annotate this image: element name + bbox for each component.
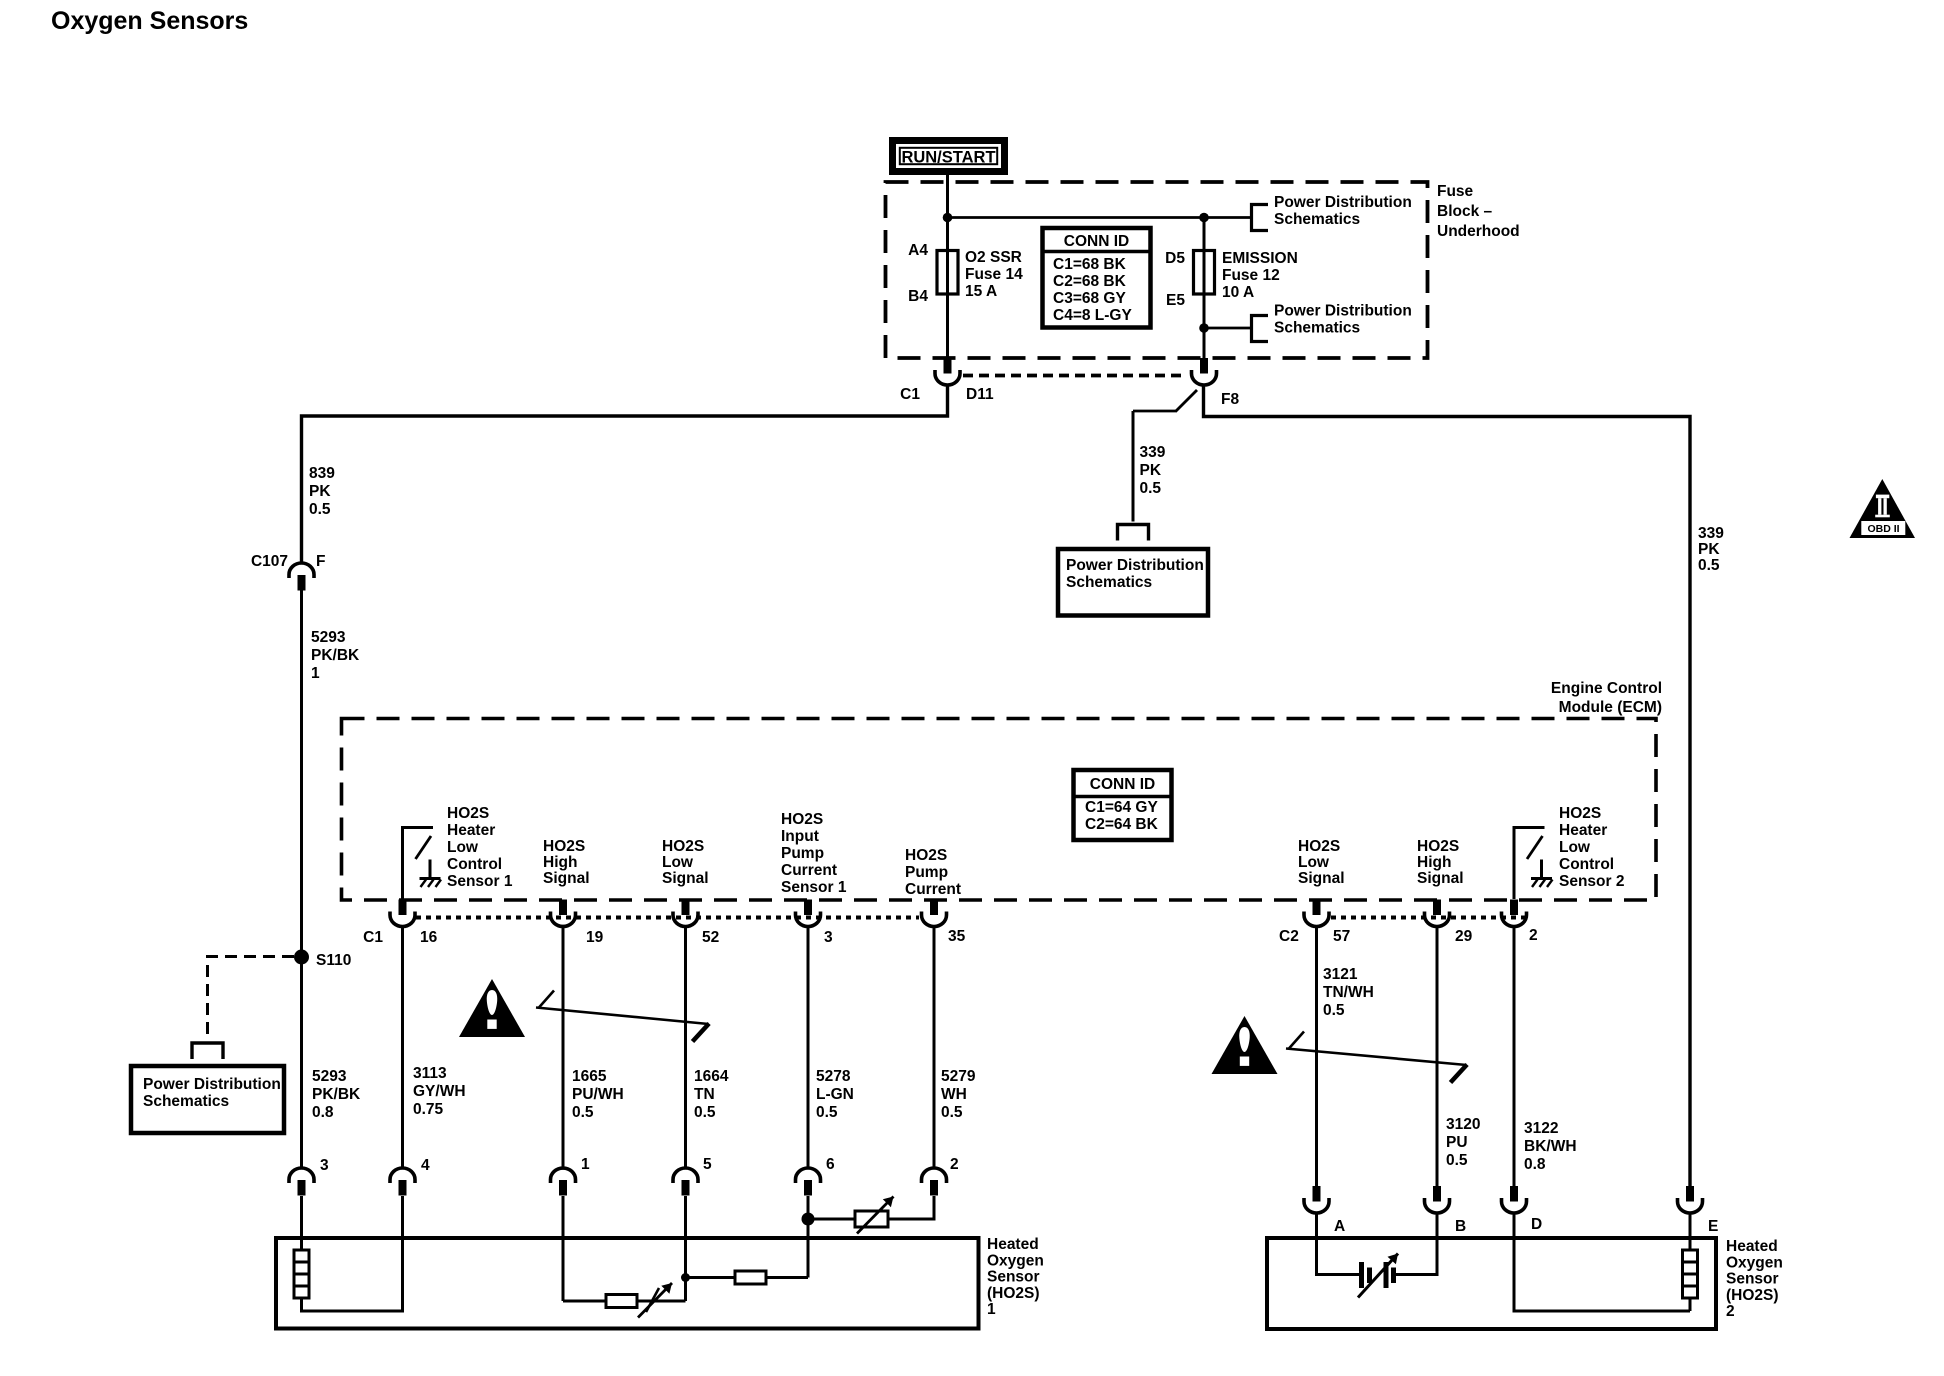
heater element (sensor 2)	[1683, 1213, 1698, 1311]
heater element (sensor 1)	[294, 1250, 309, 1298]
svg-text:0.5: 0.5	[694, 1104, 716, 1121]
svg-text:HO2S: HO2S	[781, 811, 823, 828]
label: wire 1664 TN 0.5	[694, 1068, 729, 1121]
svg-text:Sensor 2: Sensor 2	[1559, 873, 1624, 890]
svg-text:OBD II: OBD II	[1867, 523, 1899, 535]
svg-text:Schematics: Schematics	[1066, 574, 1152, 591]
svg-text:C1=64 GY: C1=64 GY	[1085, 799, 1158, 816]
label: wire 3121 TN/WH 0.5	[1323, 966, 1374, 1019]
svg-text:Power Distribution: Power Distribution	[1274, 194, 1412, 211]
svg-text:C2=64 BK: C2=64 BK	[1085, 816, 1159, 833]
label: pin 35	[948, 928, 966, 945]
fuse F12 EMISSION 10A	[1194, 218, 1215, 295]
wire: bus to Power Distribution tap	[948, 216, 1252, 219]
label: terminal B	[1455, 1218, 1466, 1235]
warning symbol (sensor 1 circuits)	[459, 979, 525, 1037]
label: pin 52	[702, 929, 719, 946]
label: HO2S Input Pump Current Sensor 1 (pin 3)	[781, 811, 847, 896]
svg-text:5293: 5293	[311, 629, 346, 646]
wire 3121 TN/WH 0.5: ECM 57 to HO2S-2 pin A	[1315, 926, 1318, 1186]
label: wire 1665 PU/WH 0.5	[572, 1068, 624, 1121]
label: terminal 4	[421, 1157, 430, 1174]
svg-text:Sensor 1: Sensor 1	[781, 879, 847, 896]
fuse F14 O2 SSR 15A	[937, 251, 958, 295]
svg-text:0.5: 0.5	[309, 501, 331, 518]
svg-text:HO2S: HO2S	[447, 805, 489, 822]
svg-text:Schematics: Schematics	[143, 1093, 229, 1110]
svg-text:Fuse 12: Fuse 12	[1222, 267, 1280, 284]
svg-text:3113: 3113	[413, 1065, 447, 1082]
pump resistor R (sensor 1)	[735, 1271, 766, 1284]
svg-text:C1: C1	[900, 386, 920, 403]
svg-text:B4: B4	[908, 288, 928, 305]
svg-text:0.8: 0.8	[1524, 1156, 1546, 1173]
svg-text:F: F	[316, 553, 325, 570]
wire: pin 5 into sensor 1	[684, 1196, 687, 1301]
wire 5293 PK/BK 1: C107 to S110	[300, 590, 303, 957]
svg-text:5278: 5278	[816, 1068, 851, 1085]
svg-text:C4=8 L-GY: C4=8 L-GY	[1053, 307, 1132, 324]
svg-text:339: 339	[1140, 444, 1166, 461]
svg-text:S110: S110	[316, 952, 351, 969]
svg-text:57: 57	[1333, 928, 1350, 945]
label: wire 3113 GY/WH 0.75	[413, 1065, 466, 1118]
svg-text:Engine Control: Engine Control	[1551, 680, 1662, 697]
svg-text:Module (ECM): Module (ECM)	[1559, 699, 1662, 716]
label: Engine Control Module (ECM)	[1551, 680, 1662, 716]
svg-text:0.5: 0.5	[1446, 1152, 1468, 1169]
svg-text:Block –: Block –	[1437, 203, 1493, 220]
svg-text:Current: Current	[781, 862, 837, 879]
svg-text:(HO2S): (HO2S)	[1726, 1287, 1779, 1304]
label: HO2S Heater Low Control Sensor 2	[1559, 805, 1624, 890]
wire 839 PK 0.5: C1 down and across to left	[302, 386, 948, 564]
label: terminal D	[1531, 1216, 1542, 1233]
reference box: Power Distribution Schematics (center)	[1058, 549, 1208, 616]
label: wire 5278 L-GN 0.5	[816, 1068, 854, 1121]
label: wire 3122 BK/WH 0.8	[1524, 1120, 1577, 1173]
label: Heated Oxygen Sensor (HO2S) 2	[1726, 1238, 1783, 1320]
svg-text:F8: F8	[1221, 391, 1239, 408]
ECM pin 52 terminal	[673, 900, 698, 927]
connector body dashed line C1-F8	[963, 374, 1187, 378]
svg-text:35: 35	[948, 928, 966, 945]
ECM pin 2 terminal (C2)	[1502, 900, 1527, 927]
wire: heater to pin 4 (inside sensor 1)	[302, 1238, 403, 1311]
svg-text:Low: Low	[1559, 839, 1591, 856]
wire: EMISSION fuse to lower tap	[1203, 294, 1206, 358]
svg-text:Heated: Heated	[1726, 1238, 1778, 1255]
svg-text:HO2S: HO2S	[905, 847, 947, 864]
note pointer arrow (sensor 1)	[536, 991, 709, 1042]
svg-text:5293: 5293	[312, 1068, 347, 1085]
label: pin A4	[908, 242, 928, 259]
svg-text:16: 16	[420, 929, 438, 946]
svg-text:0.8: 0.8	[312, 1104, 334, 1121]
svg-text:4: 4	[421, 1157, 430, 1174]
svg-text:1: 1	[311, 665, 320, 682]
svg-text:C1: C1	[363, 929, 383, 946]
svg-text:3121: 3121	[1323, 966, 1358, 983]
wire 5278 L-GN 0.5: ECM 3 to HO2S-1 pin 6	[807, 926, 810, 1169]
svg-text:PK: PK	[1698, 541, 1720, 558]
svg-text:Power Distribution: Power Distribution	[143, 1076, 281, 1093]
title: Oxygen Sensors	[51, 7, 248, 35]
svg-text:A: A	[1334, 1218, 1345, 1235]
HO2S-2 pin E connector	[1678, 1186, 1703, 1213]
svg-text:EMISSION: EMISSION	[1222, 250, 1298, 267]
label: wire 5279 WH 0.5	[941, 1068, 976, 1121]
svg-text:C2=68 BK: C2=68 BK	[1053, 273, 1127, 290]
svg-text:(HO2S): (HO2S)	[987, 1285, 1040, 1302]
svg-text:0.5: 0.5	[1698, 557, 1720, 574]
svg-text:C3=68 GY: C3=68 GY	[1053, 290, 1126, 307]
label: Power Distribution Schematics (lower)	[1274, 303, 1412, 337]
svg-text:HO2S: HO2S	[662, 838, 704, 855]
svg-text:2: 2	[1726, 1303, 1735, 1320]
svg-text:HO2S: HO2S	[1559, 805, 1601, 822]
svg-text:D5: D5	[1165, 250, 1185, 267]
HO2S-2 pin B connector	[1425, 1186, 1450, 1213]
wire: pin 5 tap to pump resistor	[686, 1276, 736, 1279]
svg-text:GY/WH: GY/WH	[413, 1083, 466, 1100]
label: pin 29	[1455, 928, 1473, 945]
svg-text:Control: Control	[447, 856, 502, 873]
HO2S-1 pin 4 connector	[390, 1168, 415, 1196]
tap bracket: Power Distribution Schematics (lower)	[1252, 316, 1269, 342]
svg-text:HO2S: HO2S	[1417, 838, 1459, 855]
wire: sense cell to pin B	[1396, 1213, 1437, 1275]
svg-text:Heated: Heated	[987, 1236, 1039, 1253]
junction: feed bus left	[943, 213, 953, 223]
wire 5293 PK/BK 0.8: S110 to HO2S-1 pin 3	[300, 957, 303, 1169]
svg-text:2: 2	[1529, 927, 1538, 944]
label: S110	[316, 952, 351, 969]
wire 5279 WH 0.5: ECM 35 to HO2S-1 pin 2	[933, 926, 936, 1169]
svg-text:TN/WH: TN/WH	[1323, 984, 1374, 1001]
svg-text:C1=68 BK: C1=68 BK	[1053, 256, 1127, 273]
splice S110	[294, 950, 309, 965]
svg-text:CONN ID: CONN ID	[1090, 776, 1155, 793]
svg-text:D11: D11	[966, 386, 994, 403]
sense cell (variable battery) sensor 2	[1358, 1254, 1398, 1298]
label: C1 (ECM connector)	[363, 929, 383, 946]
svg-text:5: 5	[703, 1156, 712, 1173]
wire: pin 1 into sensor 1	[562, 1196, 565, 1301]
svg-text:High: High	[1417, 854, 1451, 871]
label: O2 SSR Fuse 14 15 A	[965, 249, 1023, 300]
Engine Control Module (ECM) dashed outline	[342, 719, 1657, 901]
svg-text:PK: PK	[1140, 462, 1162, 479]
svg-text:15 A: 15 A	[965, 283, 997, 300]
svg-text:Oxygen Sensors: Oxygen Sensors	[51, 7, 248, 35]
wire: pin 1 leg inside sensor 1	[563, 1300, 606, 1303]
wire: resistor to pin 5 leg	[637, 1300, 686, 1303]
ECM pin 16 terminal	[390, 900, 415, 927]
svg-text:52: 52	[702, 929, 719, 946]
label: wire 5293 PK/BK 1	[311, 629, 360, 682]
label: wire 3120 PU 0.5	[1446, 1116, 1480, 1169]
HO2S-2 pin D connector	[1502, 1186, 1527, 1213]
svg-text:Low: Low	[1298, 854, 1330, 871]
label: wire 839 PK 0.5	[309, 465, 335, 518]
svg-text:0.5: 0.5	[816, 1104, 838, 1121]
warning symbol (sensor 2 circuits)	[1212, 1016, 1278, 1074]
HO2S-1 pin 1 connector	[551, 1168, 576, 1195]
svg-text:Power Distribution: Power Distribution	[1066, 557, 1204, 574]
svg-text:HO2S: HO2S	[1298, 838, 1340, 855]
svg-text:Pump: Pump	[781, 845, 824, 862]
svg-text:3: 3	[824, 929, 833, 946]
svg-text:PU/WH: PU/WH	[572, 1086, 624, 1103]
svg-text:RUN/START: RUN/START	[901, 149, 995, 167]
wire 339 PK 0.5: F8 feed across top to right side	[1204, 386, 1691, 1187]
HO2S-2 pin A connector	[1304, 1186, 1329, 1213]
connector F8 terminal	[1192, 358, 1217, 385]
svg-text:C2: C2	[1279, 928, 1299, 945]
wire: lower tap stub	[1204, 327, 1251, 330]
label: wire 339 PK 0.5 (right run)	[1698, 525, 1724, 574]
svg-text:3122: 3122	[1524, 1120, 1558, 1137]
svg-text:339: 339	[1698, 525, 1724, 542]
label: terminal 3	[320, 1157, 329, 1174]
svg-text:1665: 1665	[572, 1068, 607, 1085]
label: pin 19	[586, 929, 604, 946]
wire: pin D into sensor 2	[1514, 1213, 1690, 1311]
label: HO2S Low Signal (pin 57)	[1298, 838, 1345, 887]
svg-text:Pump: Pump	[905, 864, 948, 881]
variable resistor (pump current) VR	[855, 1197, 894, 1234]
svg-text:PK/BK: PK/BK	[312, 1086, 361, 1103]
reference box: Power Distribution Schematics (left)	[131, 1066, 284, 1133]
svg-text:Power Distribution: Power Distribution	[1274, 303, 1412, 320]
svg-text:Heater: Heater	[447, 822, 495, 839]
svg-text:6: 6	[826, 1156, 835, 1173]
svg-text:E: E	[1708, 1218, 1718, 1235]
label: terminal 1	[581, 1156, 590, 1173]
label: C1	[900, 386, 920, 403]
junction: bus at EMISSION fuse branch	[1199, 213, 1209, 223]
connector C1 terminal D11	[935, 358, 960, 385]
svg-text:3120: 3120	[1446, 1116, 1480, 1133]
junction: lower tap	[1199, 323, 1209, 333]
svg-text:1664: 1664	[694, 1068, 729, 1085]
variable slash + arrow (sense cell)	[638, 1283, 672, 1318]
HO2S-1 pin 5 connector	[673, 1168, 698, 1196]
svg-text:PK/BK: PK/BK	[311, 647, 360, 664]
svg-text:C107: C107	[251, 553, 288, 570]
splice branch from F8 to power distribution	[1133, 390, 1197, 522]
wire 3122 BK/WH 0.8: ECM 2 to HO2S-2 pin D	[1513, 926, 1516, 1186]
off-page bracket (339 branch)	[1118, 525, 1149, 541]
sense cell resistor R (sensor 1)	[606, 1295, 637, 1308]
svg-text:A4: A4	[908, 242, 928, 259]
label: C107	[251, 553, 288, 570]
ECM pin 3 terminal	[796, 900, 821, 927]
label: pin B4	[908, 288, 928, 305]
svg-text:Sensor 1: Sensor 1	[447, 873, 513, 890]
label: pin E5	[1166, 292, 1185, 309]
label: HO2S High Signal (pin 19)	[543, 838, 590, 887]
svg-text:Signal: Signal	[662, 870, 709, 887]
svg-text:Fuse 14: Fuse 14	[965, 266, 1023, 283]
wire: pin 3 into sensor 1	[300, 1196, 303, 1250]
label: HO2S Heater Low Control Sensor 1	[447, 805, 513, 890]
svg-text:Fuse: Fuse	[1437, 183, 1474, 200]
svg-text:0.75: 0.75	[413, 1101, 444, 1118]
svg-text:Low: Low	[447, 839, 479, 856]
svg-text:Oxygen: Oxygen	[1726, 1254, 1783, 1271]
label: wire 339 PK 0.5 (branch)	[1140, 444, 1166, 497]
junction: pump current branch	[802, 1213, 815, 1226]
HO2S-1 pin 3 connector	[289, 1168, 314, 1196]
dashed branch from S110 to Power Distribution	[208, 957, 295, 1039]
ECM connector C1 dotted line	[416, 916, 919, 920]
label: HO2S Low Signal (pin 52)	[662, 838, 709, 887]
svg-text:Schematics: Schematics	[1274, 320, 1360, 337]
label: HO2S High Signal (pin 29)	[1417, 838, 1464, 887]
svg-text:E5: E5	[1166, 292, 1185, 309]
svg-text:CONN ID: CONN ID	[1064, 233, 1129, 250]
wire: pump resistor to pin 6 leg	[766, 1276, 808, 1279]
svg-text:Signal: Signal	[1298, 870, 1345, 887]
label: terminal 2	[950, 1156, 959, 1173]
svg-text:2: 2	[950, 1156, 959, 1173]
svg-text:Low: Low	[662, 854, 694, 871]
wire 1664 TN 0.5: ECM 52 to HO2S-1 pin 5	[684, 926, 687, 1169]
label: terminal E	[1708, 1218, 1718, 1235]
svg-text:0.5: 0.5	[1140, 480, 1162, 497]
wire 3113 GY/WH 0.75: ECM 16 to HO2S-1 pin 4	[401, 926, 404, 1169]
CONN ID table (fuse block)	[1043, 228, 1151, 328]
svg-text:Sensor: Sensor	[1726, 1271, 1779, 1288]
svg-text:839: 839	[309, 465, 335, 482]
svg-text:0.5: 0.5	[941, 1104, 963, 1121]
svg-text:TN: TN	[694, 1086, 715, 1103]
label: EMISSION Fuse 12 10 A	[1222, 250, 1298, 301]
ECM pin 35 terminal	[922, 900, 947, 927]
svg-text:O2 SSR: O2 SSR	[965, 249, 1022, 266]
svg-text:Schematics: Schematics	[1274, 211, 1360, 228]
label: pin 3 (ECM)	[824, 929, 833, 946]
label: F8	[1221, 391, 1239, 408]
wire: pin A into sensor 2	[1317, 1213, 1360, 1275]
svg-text:5279: 5279	[941, 1068, 976, 1085]
OBD II symbol	[1850, 479, 1916, 538]
svg-text:Sensor: Sensor	[987, 1269, 1040, 1286]
junction: pin 5 tap	[681, 1273, 690, 1282]
label: pin D5	[1165, 250, 1185, 267]
label: Fuse Block - Underhood	[1437, 183, 1520, 240]
svg-text:High: High	[543, 854, 577, 871]
svg-text:HO2S: HO2S	[543, 838, 585, 855]
svg-text:Signal: Signal	[543, 870, 590, 887]
label: terminal 6	[826, 1156, 835, 1173]
Fuse Block - Underhood dashed outline	[886, 182, 1428, 358]
ECM driver: HO2S heater low control sensor 2 (switch to ground)	[1513, 828, 1553, 900]
svg-text:PK: PK	[309, 483, 331, 500]
svg-text:Input: Input	[781, 828, 819, 845]
svg-text:3: 3	[320, 1157, 329, 1174]
label: Power Distribution Schematics (upper)	[1274, 194, 1412, 228]
note pointer arrow (sensor 2)	[1286, 1032, 1467, 1083]
svg-text:Heater: Heater	[1559, 822, 1607, 839]
tap bracket: Power Distribution Schematics (upper)	[1252, 205, 1269, 231]
ECM connector C2 dotted line	[1331, 916, 1527, 920]
label: terminal A	[1334, 1218, 1345, 1235]
HO2S-1 pin 2 connector	[922, 1168, 947, 1196]
Heated Oxygen Sensor (HO2S) 2 box	[1267, 1238, 1716, 1329]
svg-text:0.5: 0.5	[1323, 1002, 1345, 1019]
wire: pin 6 into sensor 1	[807, 1196, 810, 1278]
wire: fuse B4 to connector C1	[946, 294, 949, 358]
label: terminal F	[316, 553, 325, 570]
svg-text:B: B	[1455, 1218, 1466, 1235]
wire: RUN/START feed into fuse block (left branch)	[946, 175, 949, 251]
svg-text:PU: PU	[1446, 1134, 1468, 1151]
svg-text:19: 19	[586, 929, 604, 946]
label: terminal 5	[703, 1156, 712, 1173]
Heated Oxygen Sensor (HO2S) 1 box	[276, 1238, 979, 1329]
ECM pin 57 terminal	[1304, 900, 1329, 927]
CONN ID table (ECM)	[1074, 770, 1172, 840]
label: pin 2 (ECM C2)	[1529, 927, 1538, 944]
connector C107 terminal F	[289, 563, 314, 591]
svg-text:D: D	[1531, 1216, 1542, 1233]
svg-text:10 A: 10 A	[1222, 284, 1254, 301]
wire 1665 PU/WH 0.5: ECM 19 to HO2S-1 pin 1	[562, 926, 565, 1169]
ECM driver: HO2S heater low control sensor 1 (switch to ground)	[401, 828, 441, 900]
svg-text:Signal: Signal	[1417, 870, 1464, 887]
svg-text:L-GN: L-GN	[816, 1086, 854, 1103]
HO2S-1 pin 6 connector	[796, 1168, 821, 1196]
wire: pin 2 stub to pump current branch	[933, 1196, 936, 1219]
svg-text:Underhood: Underhood	[1437, 223, 1520, 240]
svg-text:WH: WH	[941, 1086, 967, 1103]
label: C2 (ECM connector)	[1279, 928, 1299, 945]
svg-text:1: 1	[581, 1156, 590, 1173]
svg-text:Control: Control	[1559, 856, 1614, 873]
wire 3120 PU 0.5: ECM 29 to HO2S-2 pin B	[1436, 926, 1439, 1186]
label: wire 5293 PK/BK 0.8	[312, 1068, 361, 1121]
label: Heated Oxygen Sensor (HO2S) 1	[987, 1236, 1044, 1318]
label: HO2S Pump Current (pin 35)	[905, 847, 961, 898]
ECM pin 29 terminal	[1425, 900, 1450, 927]
svg-text:1: 1	[987, 1301, 996, 1318]
svg-text:BK/WH: BK/WH	[1524, 1138, 1577, 1155]
label: D11	[966, 386, 994, 403]
ECM pin 19 terminal	[551, 900, 576, 927]
off-page bracket to Power Distribution Schematics	[192, 1043, 223, 1059]
svg-text:Current: Current	[905, 881, 961, 898]
wire: pump current branch to pin 2	[808, 1196, 934, 1219]
svg-text:Oxygen: Oxygen	[987, 1252, 1044, 1269]
label: pin 57	[1333, 928, 1350, 945]
wire: pin 4 into sensor 1	[401, 1196, 404, 1238]
svg-text:29: 29	[1455, 928, 1473, 945]
label: pin 16	[420, 929, 438, 946]
RUN/START voltage tag box	[893, 141, 1005, 172]
svg-text:0.5: 0.5	[572, 1104, 594, 1121]
